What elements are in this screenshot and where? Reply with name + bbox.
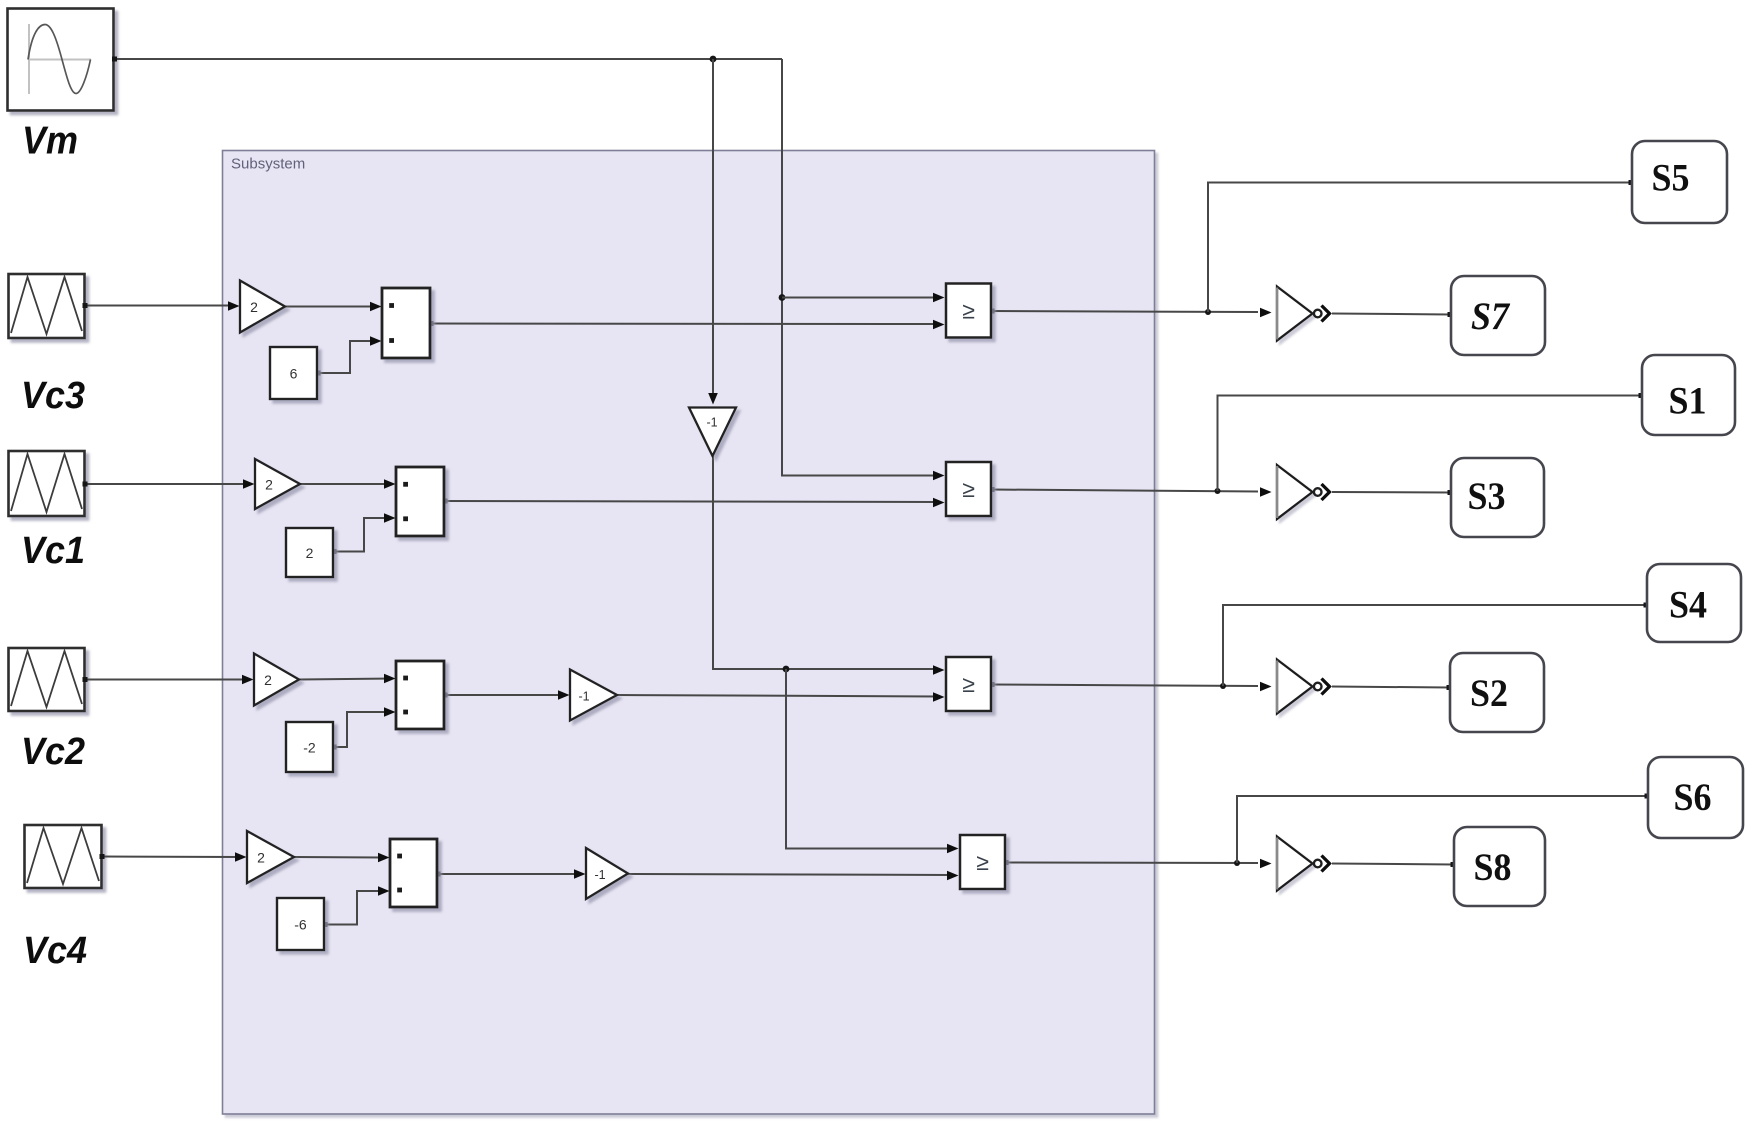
wire gain G7 to relational operator U4 input 2: [628, 874, 952, 875]
junction to S4: [1220, 683, 1226, 689]
S2 input port: [1447, 685, 1452, 690]
svg-text:S8: S8: [1474, 845, 1512, 889]
wire constant K2 to sum A2 input 2: [333, 518, 390, 552]
wire gain G5 output to relational operator U3 input 1: [713, 456, 934, 669]
wire NOT gate N4 to output block S8: [1332, 864, 1453, 865]
svg-text:2: 2: [264, 672, 272, 688]
wire sum A2 to relational operator U2 input 2: [444, 501, 939, 502]
output block S3: [1451, 458, 1544, 537]
Vc4 output port: [100, 854, 105, 859]
svg-text:Vc4: Vc4: [23, 930, 87, 972]
output block S2: [1450, 653, 1544, 732]
wire gain G2 to sum A2 input 1: [300, 483, 390, 485]
output block S4: [1647, 564, 1741, 642]
wire U1 output to NOT gate N1: [991, 311, 1258, 312]
wire U2 output to NOT gate N2: [991, 490, 1258, 492]
K1 output port: [316, 371, 321, 376]
logical NOT gate N1: [1277, 287, 1330, 341]
arrowhead into A1 input 2: [370, 336, 382, 346]
gain G6 value -1: [570, 670, 617, 721]
S8 input port: [1451, 862, 1456, 867]
S4 input port: [1644, 603, 1649, 608]
U1 output port: [990, 309, 995, 314]
gain G2 value 2: [255, 459, 300, 509]
constant K2 value 2: [286, 528, 333, 577]
relational operator U1 (&gt;=): [946, 284, 991, 338]
arrowhead into A3 input 1: [384, 674, 396, 684]
output block S1: [1642, 355, 1735, 435]
triangle wave source Vc4: [25, 825, 102, 888]
arrowhead into U2 input 2: [933, 498, 945, 508]
sum block A3: [396, 661, 444, 729]
sum block A2: [396, 467, 444, 536]
svg-text:S5: S5: [1652, 156, 1690, 200]
Vc1 output port: [83, 482, 88, 487]
wire branch to output block S6: [1237, 796, 1647, 863]
relational operator U2 (&gt;=): [946, 462, 991, 516]
S7 input port: [1448, 312, 1453, 317]
wire Vm to relational operator U2 input 1: [782, 59, 939, 476]
triangle wave source Vc2: [9, 648, 85, 711]
arrowhead into U2 input 1: [933, 471, 945, 481]
arrowhead into A1 input 1: [370, 302, 382, 312]
svg-text:-1: -1: [578, 690, 589, 704]
S5 input port: [1629, 180, 1634, 185]
K2 output port: [332, 549, 337, 554]
svg-text:Vc3: Vc3: [21, 375, 85, 417]
wire branch to output block S1: [1218, 396, 1642, 492]
wire NOT gate N3 to output block S2: [1332, 687, 1449, 688]
junction G5 net branch: [783, 666, 790, 673]
logical NOT gate N3: [1277, 660, 1330, 714]
relational operator U4 (&gt;=): [960, 835, 1005, 889]
gain G1 value 2: [240, 281, 285, 333]
label Vc1: [21, 530, 85, 572]
Vc2 output port: [83, 677, 88, 682]
wire constant K4 to sum A4 input 2: [324, 891, 384, 925]
wire gain G6 to relational operator U3 input 2: [617, 695, 939, 697]
label Vc2: [21, 731, 85, 773]
arrowhead into gain G4: [235, 852, 247, 862]
arrowhead into U3 input 2: [933, 692, 945, 702]
arrowhead into A4 input 2: [378, 886, 390, 896]
output block S5: [1632, 141, 1727, 223]
arrowhead into N2: [1260, 487, 1272, 497]
gain G7 value -1: [586, 848, 628, 899]
S3 input port: [1448, 490, 1453, 495]
A3 output port: [443, 693, 448, 698]
wire sum A4 to gain G7: [437, 873, 580, 875]
triangle wave source Vc1: [9, 451, 85, 516]
constant K4 value -6: [277, 898, 324, 950]
Vm output port: [112, 57, 117, 62]
arrowhead into U1 input 1: [933, 293, 945, 303]
arrowhead into gain G5: [708, 393, 718, 405]
S1 input port: [1639, 393, 1644, 398]
relational operator U3 (&gt;=): [946, 657, 991, 711]
gain G5 value -1 (downward): [689, 408, 736, 457]
svg-text:2: 2: [265, 477, 273, 493]
svg-text:S1: S1: [1669, 379, 1707, 423]
svg-text:Vc2: Vc2: [21, 731, 85, 773]
arrowhead into A4 input 1: [378, 853, 390, 863]
svg-text:≥: ≥: [976, 849, 989, 875]
wire branch to output block S4: [1223, 605, 1646, 686]
sum block A1: [382, 288, 430, 358]
wire sum A1 to relational operator U1 input 2: [430, 323, 939, 326]
arrowhead into U4 input 2: [947, 871, 959, 881]
Vc3 output port: [83, 303, 88, 308]
logical NOT gate N2: [1277, 465, 1330, 519]
svg-text:≥: ≥: [962, 298, 975, 324]
K3 output port: [332, 745, 337, 750]
label Vc3: [21, 375, 85, 417]
arrowhead into N4: [1260, 859, 1272, 869]
svg-text:S6: S6: [1674, 775, 1712, 819]
wire branch to relational operator U1 input 1: [782, 297, 939, 299]
wire U4 output to NOT gate N4: [1005, 862, 1258, 865]
wire Vc1 to gain G2: [85, 483, 250, 485]
sine wave source Vm: [8, 9, 114, 111]
wire gain G3 to sum A3 input 1: [299, 679, 390, 680]
arrowhead into gain G2: [243, 479, 255, 489]
U3 output port: [990, 682, 995, 687]
logical NOT gate N4: [1277, 837, 1330, 891]
svg-text:2: 2: [250, 299, 258, 315]
U4 output port: [1004, 860, 1009, 865]
A2 output port: [443, 499, 448, 504]
svg-text:Vm: Vm: [22, 120, 78, 163]
wire branch down to gain G5: [712, 59, 714, 401]
arrowhead into gain G3: [242, 675, 254, 685]
A4 output port: [436, 872, 441, 877]
junction to U1 input 1: [779, 294, 786, 301]
constant K1 value 6: [270, 347, 317, 399]
arrowhead into U3 input 1: [933, 665, 945, 675]
gain G3 value 2: [254, 654, 299, 706]
wire U3 output to NOT gate N3: [991, 685, 1258, 687]
constant K3 value -2: [286, 722, 333, 772]
wire NOT gate N1 to output block S7: [1332, 314, 1450, 315]
svg-text:S3: S3: [1468, 474, 1506, 518]
wire constant K3 to sum A3 input 2: [333, 712, 390, 747]
wire constant K1 to sum A1 input 2: [317, 341, 376, 373]
wire gain G1 to sum A1 input 1: [285, 306, 376, 308]
arrowhead into gain G6: [558, 690, 570, 700]
triangle wave source Vc3: [9, 274, 85, 338]
arrowhead into gain G1: [228, 301, 240, 311]
K4 output port: [323, 922, 328, 927]
subsystem box: [223, 151, 1155, 1115]
A1 output port: [429, 321, 434, 326]
junction to S5: [1205, 309, 1211, 315]
svg-text:-1: -1: [594, 868, 605, 882]
svg-text:-2: -2: [303, 740, 316, 756]
output block S6: [1648, 757, 1743, 838]
svg-text:-6: -6: [294, 917, 307, 933]
svg-text:-1: -1: [706, 416, 717, 430]
U2 output port: [990, 487, 995, 492]
junction to S1: [1215, 488, 1221, 494]
svg-text:S7: S7: [1471, 294, 1511, 338]
output block S7: [1451, 276, 1545, 355]
wire gain G4 to sum A4 input 1: [294, 856, 384, 859]
wire Vc2 to gain G3: [85, 679, 249, 681]
junction to S6: [1234, 860, 1240, 866]
wire NOT gate N2 to output block S3: [1332, 491, 1450, 494]
svg-text:2: 2: [257, 850, 265, 866]
S6 input port: [1645, 794, 1650, 799]
arrowhead into U4 input 1: [947, 844, 959, 854]
arrowhead into N3: [1260, 682, 1272, 692]
arrowhead into N1: [1260, 308, 1272, 318]
wire Vm output horizontal: [114, 58, 783, 60]
svg-text:≥: ≥: [962, 476, 975, 502]
arrowhead into A2 input 1: [384, 479, 396, 489]
gain G4 value 2: [247, 831, 294, 883]
junction Vm branch: [710, 56, 717, 63]
sum block A4: [390, 839, 437, 907]
wire branch to relational operator U4 input 1: [786, 669, 948, 849]
arrowhead into U1 input 2: [933, 320, 945, 330]
svg-text:S4: S4: [1669, 583, 1707, 627]
output block S8: [1454, 827, 1545, 906]
wire sum A3 to gain G6: [444, 694, 564, 696]
svg-text:Subsystem: Subsystem: [231, 156, 305, 173]
svg-text:S2: S2: [1470, 671, 1508, 715]
svg-text:2: 2: [306, 545, 314, 561]
wire Vc3 to gain G1: [85, 305, 235, 307]
svg-text:≥: ≥: [962, 671, 975, 697]
wire branch to output block S5: [1208, 183, 1631, 313]
arrowhead into A2 input 2: [384, 513, 396, 523]
svg-text:6: 6: [290, 366, 298, 382]
label Vc4: [23, 930, 87, 972]
arrowhead into gain G7: [574, 869, 586, 879]
label Vm: [22, 120, 78, 163]
svg-text:Vc1: Vc1: [21, 530, 85, 572]
arrowhead into A3 input 2: [384, 707, 396, 717]
wire Vc4 to gain G4: [102, 856, 242, 859]
